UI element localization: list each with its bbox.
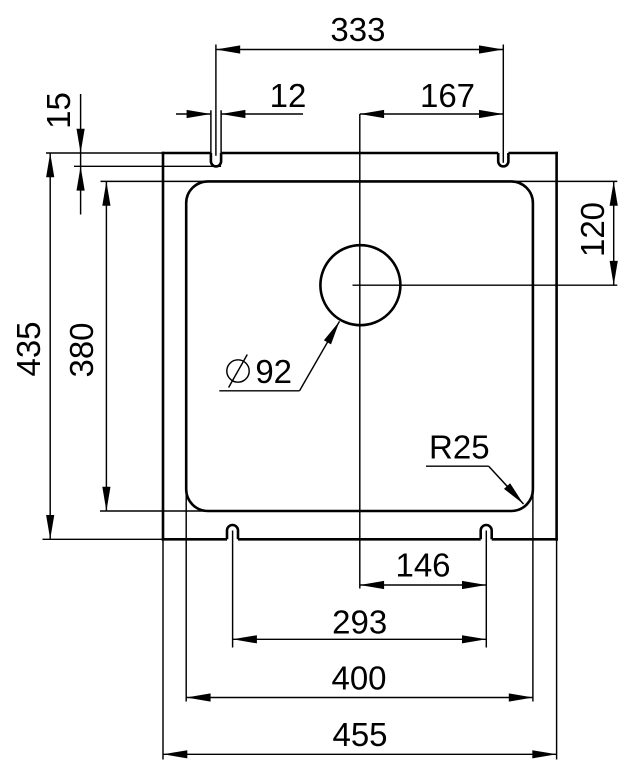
diameter symbol circle xyxy=(227,360,249,382)
svg-text:333: 333 xyxy=(330,11,385,48)
extension line top-right slot center xyxy=(502,45,504,163)
outer rim left edge xyxy=(162,152,165,541)
bottom-right mounting slot xyxy=(481,525,492,539)
svg-text:435: 435 xyxy=(10,321,47,376)
extension line bottom-right slot center down xyxy=(485,531,487,648)
dimension 455 right arrow xyxy=(532,750,556,758)
dimension 12 tail lines xyxy=(176,113,303,115)
dimension 120 top arrow xyxy=(610,181,618,205)
extension line outer left down xyxy=(162,539,164,759)
dimension 455 left arrow xyxy=(163,750,187,758)
outer rim bottom edge segments xyxy=(162,538,558,541)
svg-text:167: 167 xyxy=(420,77,475,114)
svg-text:92: 92 xyxy=(255,353,292,390)
extension line inner bottom left xyxy=(100,510,208,512)
top-left mounting slot xyxy=(211,153,221,166)
dimension 455 line xyxy=(163,753,557,755)
svg-text:R25: R25 xyxy=(429,429,490,466)
dimension 12 right arrow xyxy=(221,110,245,118)
vertical center line xyxy=(359,114,361,589)
dimension 120 line xyxy=(613,181,615,285)
diameter 92 leader shoulder xyxy=(219,390,299,392)
faucet hole circle xyxy=(320,245,400,325)
extension line slot bottom left xyxy=(74,165,221,167)
dimension 400 left arrow xyxy=(186,693,210,701)
extension line outer bottom left xyxy=(43,538,164,540)
radius R25 leader diagonal xyxy=(489,466,524,504)
dimension 167 left arrow xyxy=(360,110,384,118)
inner bowl rounded rectangle xyxy=(186,181,533,511)
dimension 293 line xyxy=(233,638,487,640)
extension lines top-left slot edges xyxy=(211,110,221,153)
extension line outer top edge left xyxy=(46,152,163,154)
svg-text:120: 120 xyxy=(574,202,611,257)
diameter 92 leader diagonal xyxy=(300,321,340,391)
dimension 435 top arrow xyxy=(46,153,54,177)
dimension 15 lower arrow xyxy=(77,166,85,190)
dimension 400 right arrow xyxy=(509,693,533,701)
dimension 380 line xyxy=(105,181,107,511)
radius R25 leader arrow xyxy=(504,483,524,504)
svg-text:380: 380 xyxy=(63,322,100,377)
dimension 380 top arrow xyxy=(102,181,110,205)
dimension 333 right arrow xyxy=(479,45,503,53)
dimension 333 left arrow xyxy=(216,45,240,53)
dimension 293 right arrow xyxy=(462,635,486,643)
dimension 15 upper arrow xyxy=(77,129,85,153)
dimension 120 bottom arrow xyxy=(610,261,618,285)
dimension 146 line xyxy=(360,584,487,586)
dimension 12 left arrow xyxy=(187,110,211,118)
bottom-left mounting slot xyxy=(227,525,238,539)
extension line inner left down xyxy=(185,490,187,702)
extension line inner right down xyxy=(532,490,534,702)
dimension 167 right arrow xyxy=(479,110,503,118)
dimension 400 line xyxy=(186,697,533,699)
dimension 435 bottom arrow xyxy=(46,515,54,539)
diameter symbol slash xyxy=(229,355,248,388)
extension line inner top right xyxy=(512,180,618,182)
extension line top-left slot center xyxy=(215,45,217,156)
circle horizontal center line xyxy=(353,284,618,286)
dimension 380 bottom arrow xyxy=(102,487,110,511)
svg-text:293: 293 xyxy=(332,604,387,641)
dimension 435 line xyxy=(49,153,51,539)
dimension 293 left arrow xyxy=(233,635,257,643)
dimension 333 line xyxy=(216,49,503,51)
svg-text:12: 12 xyxy=(270,77,307,114)
extension line bottom-left slot center down xyxy=(232,531,234,648)
diameter 92 leader arrow xyxy=(324,321,340,344)
dimension 146 left arrow xyxy=(360,581,384,589)
top-right mounting slot xyxy=(498,153,508,166)
dimension 167 line xyxy=(360,113,504,115)
svg-text:15: 15 xyxy=(40,92,77,129)
svg-text:400: 400 xyxy=(331,660,386,697)
dimension 146 right arrow xyxy=(462,581,486,589)
svg-text:455: 455 xyxy=(332,716,387,753)
outer rim right edge xyxy=(555,152,558,541)
dimension 15 line xyxy=(80,94,82,215)
svg-text:146: 146 xyxy=(395,547,450,584)
radius R25 underline xyxy=(426,465,489,467)
extension line outer right down xyxy=(556,539,558,759)
outer rim top edge segments xyxy=(162,152,558,155)
extension line inner top left xyxy=(101,180,208,182)
